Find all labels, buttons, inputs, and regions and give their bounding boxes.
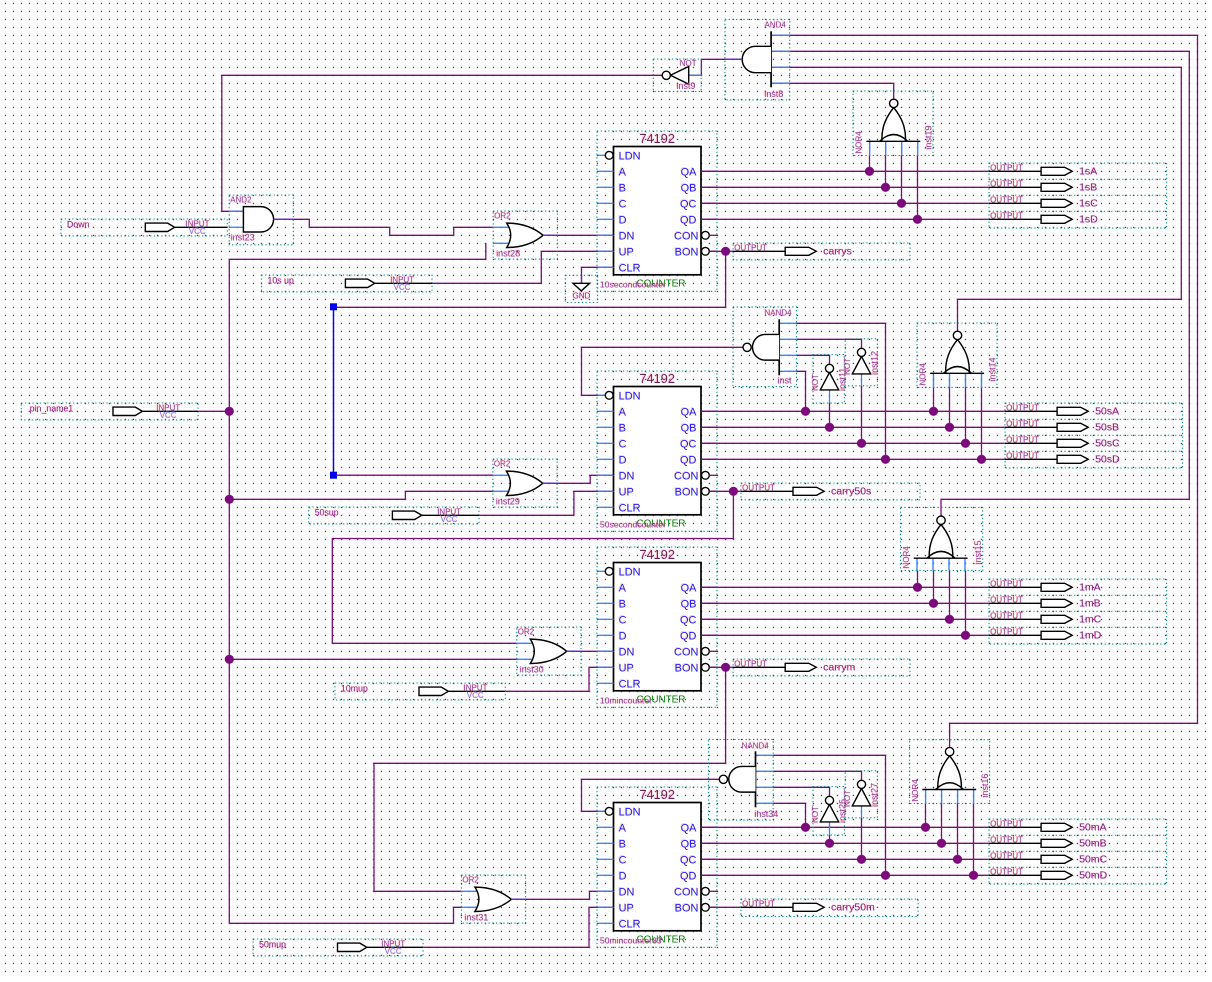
junction inst15 in1 on 1m QA [913,583,922,592]
output pin group 1m (1mA-1mD) [989,579,1167,644]
junction inst19 input2 on QB [881,183,890,192]
svg-text:VCC: VCC [441,515,458,524]
svg-text:inst34: inst34 [754,809,778,819]
counter U counter4 (50mincounter33) 74192 (50mincounter33) [597,787,718,947]
inverter inst9 NOT (mirrored, output left) [653,59,701,92]
junction inst12 on 50s QC [857,439,866,448]
wire pin_name1 to rail junction [198,410,229,412]
svg-text:QC: QC [680,438,697,450]
svg-text:VCC: VCC [394,283,411,292]
wire carrym feedback loop to OR2 inst31 input1 [374,667,726,891]
wire Up rail from pin_name1 junction [229,243,486,923]
wire NAND4 inst output to counter2 LDN [582,347,744,395]
svg-text:50sC: 50sC [1095,438,1120,450]
output pin group 50m (50mA-50mD) [989,819,1167,884]
input pin Down [61,219,227,236]
svg-text:LDN: LDN [619,566,641,578]
svg-text:NAND4: NAND4 [742,741,770,750]
svg-text:VCC: VCC [467,691,484,700]
svg-text:74192: 74192 [639,371,675,386]
junction inst14 in2 on 50s QB [945,423,954,432]
wire 10sup to counter1 UP [432,251,614,283]
svg-text:QD: QD [680,214,697,226]
svg-text:1sD: 1sD [1079,214,1098,226]
output pin 1sD [989,212,1098,226]
output pin group 1s (1sA-1sD) [989,163,1167,228]
svg-text:A: A [619,406,627,418]
svg-text:50mC: 50mC [1079,854,1107,866]
svg-text:NOT: NOT [811,374,820,391]
svg-text:DN: DN [619,646,635,658]
output pin 50mC [989,852,1108,866]
svg-text:QD: QD [680,454,697,466]
svg-text:GND: GND [573,291,591,300]
svg-text:CON: CON [674,646,699,658]
svg-text:BON: BON [675,662,699,674]
output pin carrym [733,659,910,676]
svg-text:inst8: inst8 [764,89,783,99]
svg-text:NOT: NOT [680,59,697,68]
svg-text:inst12: inst12 [870,351,880,375]
wire counter3 QA to output 1mA [701,586,989,588]
svg-text:QD: QD [680,630,697,642]
svg-text:UP: UP [619,662,634,674]
svg-text:QC: QC [680,614,697,626]
junction inst16 in3 on 50m QC [953,855,962,864]
wire NOT inst27 input to counter4 QC [861,818,863,860]
wire counter4 QB to output 50mB [701,842,989,844]
svg-text:74192: 74192 [639,547,675,562]
output pin 1mC [989,612,1102,626]
junction inst16 in2 on 50m QB [937,839,946,848]
or-gate inst30 OR2 [517,627,581,675]
wire AND4 input1 loop to NOR4 inst16 output [771,35,1197,747]
svg-text:10mincounter: 10mincounter [600,696,652,706]
svg-text:AND2: AND2 [230,195,252,204]
svg-text:QC: QC [680,854,697,866]
svg-text:1mA: 1mA [1079,582,1101,594]
svg-text:BON: BON [675,246,699,258]
svg-text:D: D [619,454,627,466]
junction inst16 in4 on 50m QD [969,871,978,880]
svg-text:AND4: AND4 [765,20,787,29]
junction carrym node [721,663,730,672]
output pin 1sA [989,164,1097,178]
wire NAND4 inst input1 to counter2 QD [797,323,886,459]
wire rail to OR2 inst29 input2 [229,491,493,499]
svg-text:inst27: inst27 [870,783,880,807]
wire counter2 QB to output 50sB [701,426,1005,428]
wire counter3 BON to output carrym [709,666,733,668]
svg-text:Down: Down [67,220,90,230]
wire selected segment end to OR2 inst29 input1 [334,474,494,476]
wire AND4 input2 loop to NOR4 inst15 output [771,51,1189,516]
wire NAND4 inst input4 to counter2 QA [797,371,806,411]
output pin 50mA [989,820,1107,834]
svg-text:D: D [619,870,627,882]
output pin group 50s (50sA-50sD) [1005,403,1183,468]
svg-text:1sA: 1sA [1079,166,1097,178]
svg-text:LDN: LDN [619,806,641,818]
svg-text:50mD: 50mD [1079,870,1107,882]
svg-text:NOT: NOT [843,358,852,375]
svg-text:50sup: 50sup [315,508,339,518]
svg-text:UP: UP [619,902,634,914]
svg-text:QC: QC [680,198,697,210]
wire counter1 QB to output 1sB [701,186,989,188]
svg-text:1mC: 1mC [1079,614,1102,626]
svg-text:BON: BON [675,486,699,498]
wire NAND4 inst input2 to NOT inst12 output [797,339,862,348]
svg-text:inst29: inst29 [496,497,520,507]
wire counter2 QC to output 50sC [701,442,1005,444]
or-gate inst31 OR2 [461,875,525,923]
svg-text:OR2: OR2 [494,212,511,221]
junction inst14 in1 on 50s QA [929,407,938,416]
and-gate inst23 AND2 [229,195,293,245]
svg-text:carrys: carrys [823,246,852,258]
svg-text:QA: QA [681,822,698,834]
svg-text:inst28: inst28 [496,249,520,259]
wire counter3 QD to output 1mD [701,634,989,636]
junction inst16 in1 on 50m QA [921,823,930,832]
wire counter3 QB to output 1mB [701,602,989,604]
wire counter2 QA to output 50sA [701,410,1005,412]
nor-gate inst14 NOR4 (points up) [917,323,998,387]
svg-text:DN: DN [619,470,635,482]
svg-text:inst23: inst23 [231,232,255,242]
junction inst19 input3 on QC [897,199,906,208]
input pin 50mup [253,939,423,956]
svg-text:QB: QB [681,598,697,610]
svg-text:BON: BON [675,902,699,914]
wire NOR4 inst15 inputs to counter3 Q rows [917,570,919,587]
svg-text:carry50s: carry50s [831,486,871,498]
junction inst27 on 50m QC [857,855,866,864]
svg-text:NOR4: NOR4 [911,779,920,802]
svg-text:inst9: inst9 [676,81,695,91]
svg-text:inst19: inst19 [924,125,934,149]
svg-text:NOT: NOT [811,806,820,823]
svg-text:carry50m: carry50m [831,902,875,914]
wire NAND4 inst34 input1 to counter4 QD [773,755,885,875]
and-gate inst8 AND4 (mirrored, output left) [725,19,790,100]
counter U counter1 (10secondcounter) 74192 (10secondcounter) [597,131,718,291]
wire 10mup to counter3 UP [505,667,613,691]
selected wire segment (blue) on carry chain [333,307,335,475]
svg-text:50mB: 50mB [1079,838,1106,850]
junction inst14 in4 on 50s QD [977,455,986,464]
svg-text:50mup: 50mup [259,940,286,950]
nor-gate inst15 NOR4 (points up) [901,507,984,570]
svg-text:1mD: 1mD [1079,630,1102,642]
junction inst11 on 50s QB [825,423,834,432]
svg-text:OR2: OR2 [494,460,511,469]
junction inst26 on 50m QB [825,839,834,848]
svg-text:1mB: 1mB [1079,598,1101,610]
svg-text:C: C [619,198,627,210]
wire OR2 inst31 output to counter4 DN [511,891,614,899]
nand-gate inst NAND4 (mirrored, output left) [733,307,797,387]
svg-text:QD: QD [680,870,697,882]
nand-gate inst34 NAND4 (mirrored, output left) [709,740,779,821]
output pin 50mB [989,836,1107,850]
output pin 1sB [989,180,1097,194]
junction inst19 input4 on QD [913,215,922,224]
nor-gate inst19 NOR4 (points up) [853,91,934,156]
wire NAND4 inst34 input4 to counter4 QA [773,803,805,827]
output pin 1mA [989,580,1101,594]
svg-text:QB: QB [681,422,697,434]
output pin 50mD [989,868,1108,882]
svg-text:OR2: OR2 [518,628,535,637]
svg-text:74192: 74192 [639,131,675,146]
junction inst19 input1 on QA [865,167,874,176]
junction inst15 in2 on 1m QB [929,599,938,608]
svg-text:pin_name1: pin_name1 [30,404,74,414]
svg-text:inst14: inst14 [988,357,998,381]
svg-text:NOR4: NOR4 [902,546,911,569]
svg-text:B: B [619,422,626,434]
svg-text:CON: CON [674,230,699,242]
inverter inst11 NOT (points up) [811,355,848,404]
wire AND4 input3 loop to NOR4 inst14 output [771,67,1181,331]
wire carry50s feedback loop to OR2 inst30 input1 [332,491,733,643]
wire OR2 inst30 output to counter3 DN [566,650,613,652]
wire AND4 input4 to NOR4 inst19 output [771,83,894,99]
svg-text:CLR: CLR [619,262,641,274]
junction rail to inst30 node [225,655,234,664]
svg-text:DN: DN [619,230,635,242]
junction rail to inst29 node [225,495,234,504]
svg-text:A: A [619,582,627,594]
wire OR2 inst29 output to counter2 DN [543,475,614,483]
output pin 1sC [989,196,1098,210]
svg-text:B: B [619,182,626,194]
svg-text:C: C [619,438,627,450]
svg-text:B: B [619,598,626,610]
svg-text:inst: inst [778,376,793,386]
junction inst14 in3 on 50s QC [961,439,970,448]
output pin carrys [733,243,910,260]
wire counter1 QA to output 1sA [701,170,989,172]
wire counter1 QC to output 1sC [701,202,989,204]
svg-text:NOR4: NOR4 [919,363,928,386]
svg-text:D: D [619,214,627,226]
svg-text:50mA: 50mA [1079,822,1106,834]
svg-text:inst15: inst15 [973,540,983,564]
wire counter3 QC to output 1mC [701,618,989,620]
output pin 50sB [1005,420,1119,434]
wire counter4 QA to output 50mA [701,826,989,828]
svg-text:C: C [619,614,627,626]
svg-text:B: B [619,838,626,850]
svg-text:CLR: CLR [619,502,641,514]
or-gate inst28 OR2 [493,211,557,259]
svg-text:1sB: 1sB [1079,182,1097,194]
svg-text:QB: QB [681,838,697,850]
wire NOR4 inst19 inputs to Q rows [869,156,871,172]
input pin 10mup [335,683,505,700]
output pin 50sA [1005,404,1119,418]
wire 50mup to counter4 UP [423,907,613,947]
svg-text:VCC: VCC [160,411,177,420]
input pin 50sup [309,507,479,524]
svg-text:CON: CON [674,886,699,898]
junction NAND inst34 in1 on 50m QD [881,871,890,880]
svg-text:50sB: 50sB [1095,422,1119,434]
svg-text:A: A [619,166,627,178]
svg-text:inst31: inst31 [464,913,488,923]
junction inst15 in4 on 1m QD [961,631,970,640]
wire carrys junction to Up-chain (blue selected segment feeds OR2 inst29 input1) [334,251,726,307]
svg-text:LDN: LDN [619,150,641,162]
junction pin_name1 rail node [225,407,234,416]
svg-text:inst30: inst30 [520,665,544,675]
svg-text:NOT: NOT [843,790,852,807]
svg-text:UP: UP [619,246,634,258]
svg-text:VCC: VCC [385,947,402,956]
counter U counter3 (10mincounter) 74192 (10mincounter) [597,547,718,707]
inverter inst27 NOT (points up) [843,771,880,818]
wire NOT inst12 input to counter2 QC [861,386,863,444]
svg-text:1sC: 1sC [1079,198,1098,210]
junction NAND inst in4 on 50s QA [801,407,810,416]
wire AND4 output to NOT9 input [689,59,743,75]
wire NOT inst26 input to counter4 QB [829,835,831,843]
output pin 1mD [989,628,1102,642]
svg-text:VCC: VCC [189,227,206,236]
svg-text:carrym: carrym [823,662,855,674]
wire rail to OR2 inst30 input2 [229,658,517,660]
output pin 50sD [1005,452,1120,466]
svg-text:LDN: LDN [619,390,641,402]
svg-text:DN: DN [619,886,635,898]
wire AND2 output to OR2 inst28 input1 [273,219,493,235]
wire counter2 BON to output carry50s [709,490,741,492]
svg-text:10s up: 10s up [268,276,295,286]
svg-text:10secondcounter: 10secondcounter [600,280,666,290]
svg-text:inst16: inst16 [980,773,990,797]
output pin carry50m [741,899,918,917]
svg-text:QA: QA [681,166,698,178]
or-gate inst29 OR2 [493,459,557,507]
svg-text:UP: UP [619,486,634,498]
svg-text:A: A [619,822,627,834]
inverter inst12 NOT (points up) [843,339,880,386]
junction carrys node [721,247,730,256]
output pin 1mB [989,596,1101,610]
output pin 50sC [1005,436,1120,450]
svg-text:CLR: CLR [619,918,641,930]
wire 50sup to counter2 UP [479,491,614,515]
nor-gate inst16 NOR4 (points up) [910,740,991,804]
svg-text:OR2: OR2 [462,876,479,885]
wire counter1 BON to output carrys [709,250,733,252]
svg-text:NAND4: NAND4 [764,309,792,318]
inverter inst26 NOT (points up) [811,787,848,836]
wire NAND4 inst34 input2 to NOT inst27 output [773,771,861,780]
wire OR2 inst28 output to counter1 DN [543,234,614,236]
wire NOR4 inst14 inputs to counter2 Q rows [933,387,935,411]
ground symbol GND [565,275,597,302]
svg-text:74192: 74192 [639,787,675,802]
svg-text:C: C [619,854,627,866]
wire counter2 QD to output 50sD [701,458,1005,460]
svg-text:QA: QA [681,406,698,418]
svg-text:50sD: 50sD [1095,454,1120,466]
svg-text:50mincounter33: 50mincounter33 [600,936,662,946]
output pin carry50s [741,483,920,500]
junction carry50s node [729,487,738,496]
junction NAND inst34 in4 on 50m QA [801,823,810,832]
wire counter4 QD to output 50mD [701,874,989,876]
junction NAND inst in1 on 50s QD [881,455,890,464]
svg-text:CLR: CLR [619,678,641,690]
svg-text:D: D [619,630,627,642]
svg-text:NOR4: NOR4 [855,131,864,154]
wire counter4 BON to output carry50m [709,906,741,908]
input pin 10sup [262,275,433,292]
wire counter1 QD to output 1sD [701,218,989,220]
svg-text:CON: CON [674,470,699,482]
junction inst15 in3 on 1m QC [945,615,954,624]
wire NAND4 inst input3 to NOT inst11 output [797,355,830,364]
wire NAND4 inst34 input3 to NOT inst26 output [773,787,829,796]
wire GND to counter1 CLR [582,267,614,283]
svg-text:50secondcounter: 50secondcounter [600,520,666,530]
wire counter4 QC to output 50mC [701,858,989,860]
wire NOT inst11 input to counter2 QB [829,403,831,427]
svg-text:50sA: 50sA [1095,406,1119,418]
wire NOR4 inst16 inputs to counter4 Q rows [925,804,927,828]
wire NAND4 inst34 output to counter4 LDN [582,779,720,811]
wire NOT9 output loop to AND2 input1 [222,75,662,211]
counter U counter2 (50secondcounter) 74192 (50secondcounter) [597,371,718,531]
svg-text:10mup: 10mup [341,684,368,694]
svg-text:QA: QA [681,582,698,594]
svg-text:QB: QB [681,182,697,194]
input pin pin_name1 [21,403,198,420]
